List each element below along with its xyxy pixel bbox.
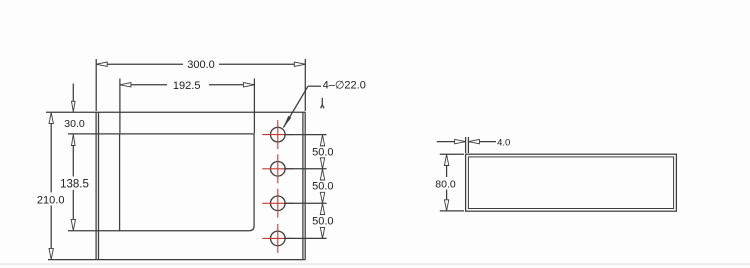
- hole H1: [271, 127, 286, 142]
- dim 300.0 arrows: [96, 62, 107, 66]
- plate top edge: [46, 111, 305, 113]
- dim 80.0 extension lines: [440, 153, 464, 155]
- hole H2: [271, 162, 286, 177]
- svg-text:4.0: 4.0: [497, 137, 510, 148]
- dim 4.0 extension lines: [465, 137, 467, 153]
- svg-text:50.0: 50.0: [312, 215, 333, 227]
- extension line y=230.7 left: [68, 230, 120, 232]
- segment 2 arrows: [320, 169, 324, 180]
- inner bend outline (rounded rect): [120, 134, 255, 231]
- leader to holes: [284, 86, 309, 127]
- dim 4.0 line right part: [468, 141, 496, 143]
- svg-text:80.0: 80.0: [435, 178, 456, 190]
- dim 192.5 line: [120, 84, 167, 86]
- dim 30.0 top arrow (outside, pointing down): [72, 84, 74, 103]
- faint page rule bottom: [0, 263, 750, 265]
- surface mark near leader: [321, 98, 323, 106]
- hole H3: [271, 196, 286, 211]
- svg-text:30.0: 30.0: [64, 118, 85, 130]
- dim 300.0 line: [96, 63, 183, 65]
- dim 192.5 extension lines: [119, 79, 121, 134]
- dim 138.5 line with arrows: [72, 135, 76, 146]
- plate right edge (double line): [302, 112, 304, 259]
- svg-text:138.5: 138.5: [60, 179, 89, 191]
- centerlines H4 (red): [262, 237, 293, 239]
- segment 3 arrows: [320, 204, 324, 215]
- hole extension lines to 50.0 dims: [284, 134, 327, 136]
- dim 210.0 line with arrows: [49, 113, 53, 124]
- dim 50.0 stack at x=322.5 : segment 1 arrows: [320, 135, 324, 146]
- svg-text:192.5: 192.5: [173, 80, 201, 92]
- dim 192.5 arrows: [120, 83, 131, 87]
- svg-text:50.0: 50.0: [312, 147, 333, 159]
- centerlines H1 (red): [262, 120, 293, 253]
- dim 4.0 line left part: [437, 141, 466, 143]
- plate bottom edge: [48, 259, 305, 261]
- extension line y=134 left: [68, 133, 120, 135]
- side view inner rect: [468, 157, 673, 209]
- centerlines H3 (red): [262, 202, 293, 204]
- svg-text:4–∅22.0: 4–∅22.0: [323, 80, 366, 92]
- dim 300.0 extension lines: [95, 59, 97, 111]
- svg-text:210.0: 210.0: [37, 194, 65, 206]
- centerlines H2 (red): [262, 168, 293, 170]
- svg-text:300.0: 300.0: [187, 59, 215, 71]
- dim 80.0 line with arrows: [444, 155, 448, 166]
- svg-text:50.0: 50.0: [312, 181, 333, 193]
- hole H4: [271, 231, 286, 246]
- side view outer rect: [466, 154, 677, 211]
- plate left edge (double line): [95, 112, 97, 259]
